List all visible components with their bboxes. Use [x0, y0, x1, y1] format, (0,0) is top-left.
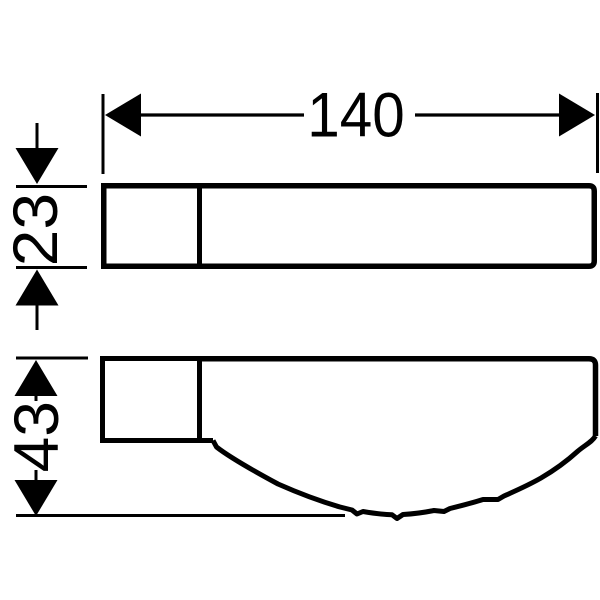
dimension 23: upper tick line — [16, 185, 87, 188]
dimension 140: left dimension line segment — [138, 113, 304, 116]
dimension 140: left extension line — [102, 94, 105, 174]
side view: wall bracket box — [103, 356, 214, 443]
dimension 43: upper arrow stem — [35, 395, 38, 401]
top view: divider line — [197, 185, 202, 267]
dimension 23: upper extension stem — [36, 123, 39, 149]
side view: bowl profile curve — [213, 436, 596, 519]
dimension 140: right arrowhead — [559, 94, 595, 137]
dimension 140: right extension line — [596, 93, 599, 173]
dimension 140: left arrowhead — [105, 94, 141, 137]
dimension 43: upper arrowhead — [15, 360, 58, 396]
top view: bar outline — [104, 186, 595, 267]
dimension 43: lower arrowhead — [15, 480, 58, 516]
dimension 43: lower arrow stem — [35, 470, 38, 481]
dimension 43: base reference line — [16, 514, 345, 517]
dimension 140: right dimension line segment — [415, 113, 561, 116]
dimension 23: lower tick line — [16, 266, 87, 269]
dimension 23: lower extension stem — [36, 305, 39, 330]
dimension 23: lower arrowhead — [16, 270, 59, 306]
svg-text:43: 43 — [0, 401, 72, 472]
svg-text:23: 23 — [0, 193, 71, 266]
svg-text:140: 140 — [307, 79, 404, 150]
dimension 43: upper tick line — [16, 357, 88, 360]
dimension 23: upper arrowhead — [16, 148, 59, 184]
side view: top edge and right edge — [199, 359, 596, 436]
